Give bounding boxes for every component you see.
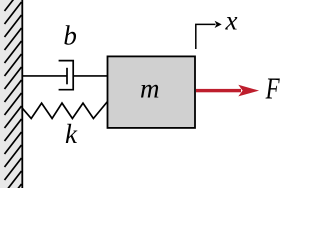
wall hatching [5,0,22,206]
svg-text:x: x [225,6,238,36]
svg-text:k: k [65,119,78,149]
wall fill [0,0,22,188]
x-axis arrowhead [215,21,222,28]
wall surface line [21,0,23,188]
x-axis reference line [196,24,216,49]
damper rod right [73,75,108,77]
force arrow F head [238,85,259,97]
svg-text:b: b [63,21,77,51]
svg-text:F: F [265,71,280,106]
mass m [108,56,196,128]
damper cylinder [59,61,74,90]
force arrow F shaft [196,89,241,92]
spring k [22,102,108,119]
svg-text:m: m [140,74,160,104]
damper piston [66,68,68,85]
damper rod left [22,75,67,77]
